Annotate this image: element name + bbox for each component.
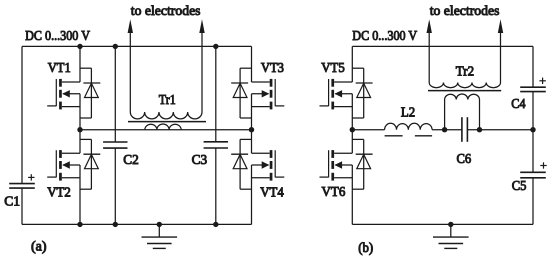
capacitor C6 (series/parallel resonant) [461, 117, 463, 142]
transistor VT4 (N-MOSFET with body diode) [231, 130, 284, 225]
wire: C3 to bottom rail [215, 148, 217, 224]
svg-text:DC 0...300 V: DC 0...300 V [352, 27, 417, 43]
wire: (b) positive DC top rail [352, 45, 533, 47]
svg-text:VT6: VT6 [322, 184, 346, 200]
capacitor C3 (resonant) [204, 141, 228, 143]
node: (a) C3 on bottom rail [213, 222, 218, 227]
electrode lead arrow (b) right [500, 32, 502, 83]
wire: (b) mid node to L2 [352, 129, 384, 131]
node: (a) ground tap on bottom rail [157, 222, 162, 227]
svg-text:VT5: VT5 [321, 59, 345, 75]
node: (a) C3 tap on top rail [213, 44, 218, 49]
svg-text:C5: C5 [512, 177, 527, 193]
svg-text:(a): (a) [31, 240, 47, 255]
node: L2 / C6 / Tr2 primary left (node X) [442, 127, 447, 132]
transistor VT5 (N-MOSFET with body diode) [320, 46, 373, 129]
transformer Tr2 primary winding with leads [445, 94, 480, 130]
svg-text:to electrodes: to electrodes [131, 3, 201, 18]
wire: (a) negative DC bottom rail [22, 223, 252, 225]
svg-text:DC 0...300 V: DC 0...300 V [25, 27, 90, 43]
svg-text:(b): (b) [358, 239, 373, 255]
transistor VT2 (N-MOSFET with body diode) [47, 130, 100, 225]
transformer Tr1 secondary winding [130, 112, 202, 119]
inductor L2 core dash right [415, 135, 432, 137]
transformer Tr2 core [428, 90, 501, 92]
svg-text:C4: C4 [511, 95, 526, 111]
wire: (a) positive DC top rail [22, 45, 252, 47]
transistor VT6 (N-MOSFET with body diode) [320, 130, 373, 225]
wire: C5 to bottom rail corner [532, 178, 534, 225]
electrode lead arrow (a) left [129, 32, 131, 112]
svg-text:Tr2: Tr2 [456, 63, 474, 79]
svg-text:VT4: VT4 [260, 184, 284, 200]
wire: L2 to C6 left plate [432, 129, 462, 131]
svg-text:to electrodes: to electrodes [430, 3, 500, 18]
svg-text:VT3: VT3 [261, 59, 284, 75]
svg-text:C1: C1 [4, 193, 20, 208]
wire: (a) bridge mid-node line / Tr1 primary lead [80, 129, 252, 131]
inductor L2 core dash left [385, 135, 403, 137]
svg-text:C2: C2 [123, 152, 139, 167]
transistor VT3 (N-MOSFET with body diode) [231, 46, 284, 129]
svg-text:C6: C6 [457, 151, 472, 167]
svg-text:VT1: VT1 [48, 59, 71, 75]
capacitor C2 (resonant) [103, 141, 127, 143]
electrode lead arrow (a) right [201, 32, 203, 112]
node: (b) ground tap on bottom rail [448, 222, 453, 227]
transformer Tr2 secondary winding [429, 83, 500, 88]
wire: (a) C1 bottom plate down to bottom rail [21, 188, 23, 224]
node: (a) VT1 drain on top rail [77, 44, 82, 49]
svg-text:Tr1: Tr1 [159, 91, 176, 107]
wire: C6 right plate to node Y [467, 129, 533, 131]
node: C6 / Tr2 primary right (node Y) [477, 127, 482, 132]
polarity + mark [28, 176, 34, 178]
ground [433, 224, 469, 248]
node: C4/C5 divider mid [530, 127, 535, 132]
ground [142, 224, 178, 248]
wire: mid node down to C5 [532, 130, 534, 173]
capacitor C4 (output divider, electrolytic) [520, 86, 546, 88]
transformer Tr1 primary winding [145, 124, 181, 130]
capacitor C1 (DC-link electrolytic) [9, 183, 35, 185]
node: (b) VT5/VT6 mid-point [350, 127, 355, 132]
wire: C3 branch from top rail [215, 46, 217, 141]
wire: (b) negative DC bottom rail [352, 223, 533, 225]
node: (a) VT1/VT2 mid-point [77, 127, 82, 132]
polarity + mark [539, 80, 545, 82]
polarity + mark [540, 165, 546, 167]
node: (a) VT3/VT4 mid-point [249, 127, 254, 132]
wire: C4 bottom plate to mid node [532, 92, 534, 130]
capacitor C5 (output divider, electrolytic) [520, 171, 546, 173]
node: (a) C2 on bottom rail [113, 222, 118, 227]
wire: C4 branch from top-rail corner [532, 46, 534, 87]
svg-text:VT2: VT2 [47, 184, 70, 200]
transformer Tr1 core [128, 121, 206, 123]
svg-text:C3: C3 [192, 152, 208, 167]
wire: C2 branch from top rail [114, 46, 116, 142]
svg-text:L2: L2 [401, 104, 415, 120]
wire: (a) left bus down to C1 top plate [21, 46, 23, 183]
node: (a) VT2 source on bottom rail [77, 222, 82, 227]
inductor L2 [385, 123, 433, 129]
transistor VT1 (N-MOSFET with body diode) [47, 46, 100, 129]
wire: C2 to bottom rail [114, 148, 116, 224]
node: (a) C2 tap on top rail [113, 44, 118, 49]
electrode lead arrow (b) left [428, 32, 430, 83]
